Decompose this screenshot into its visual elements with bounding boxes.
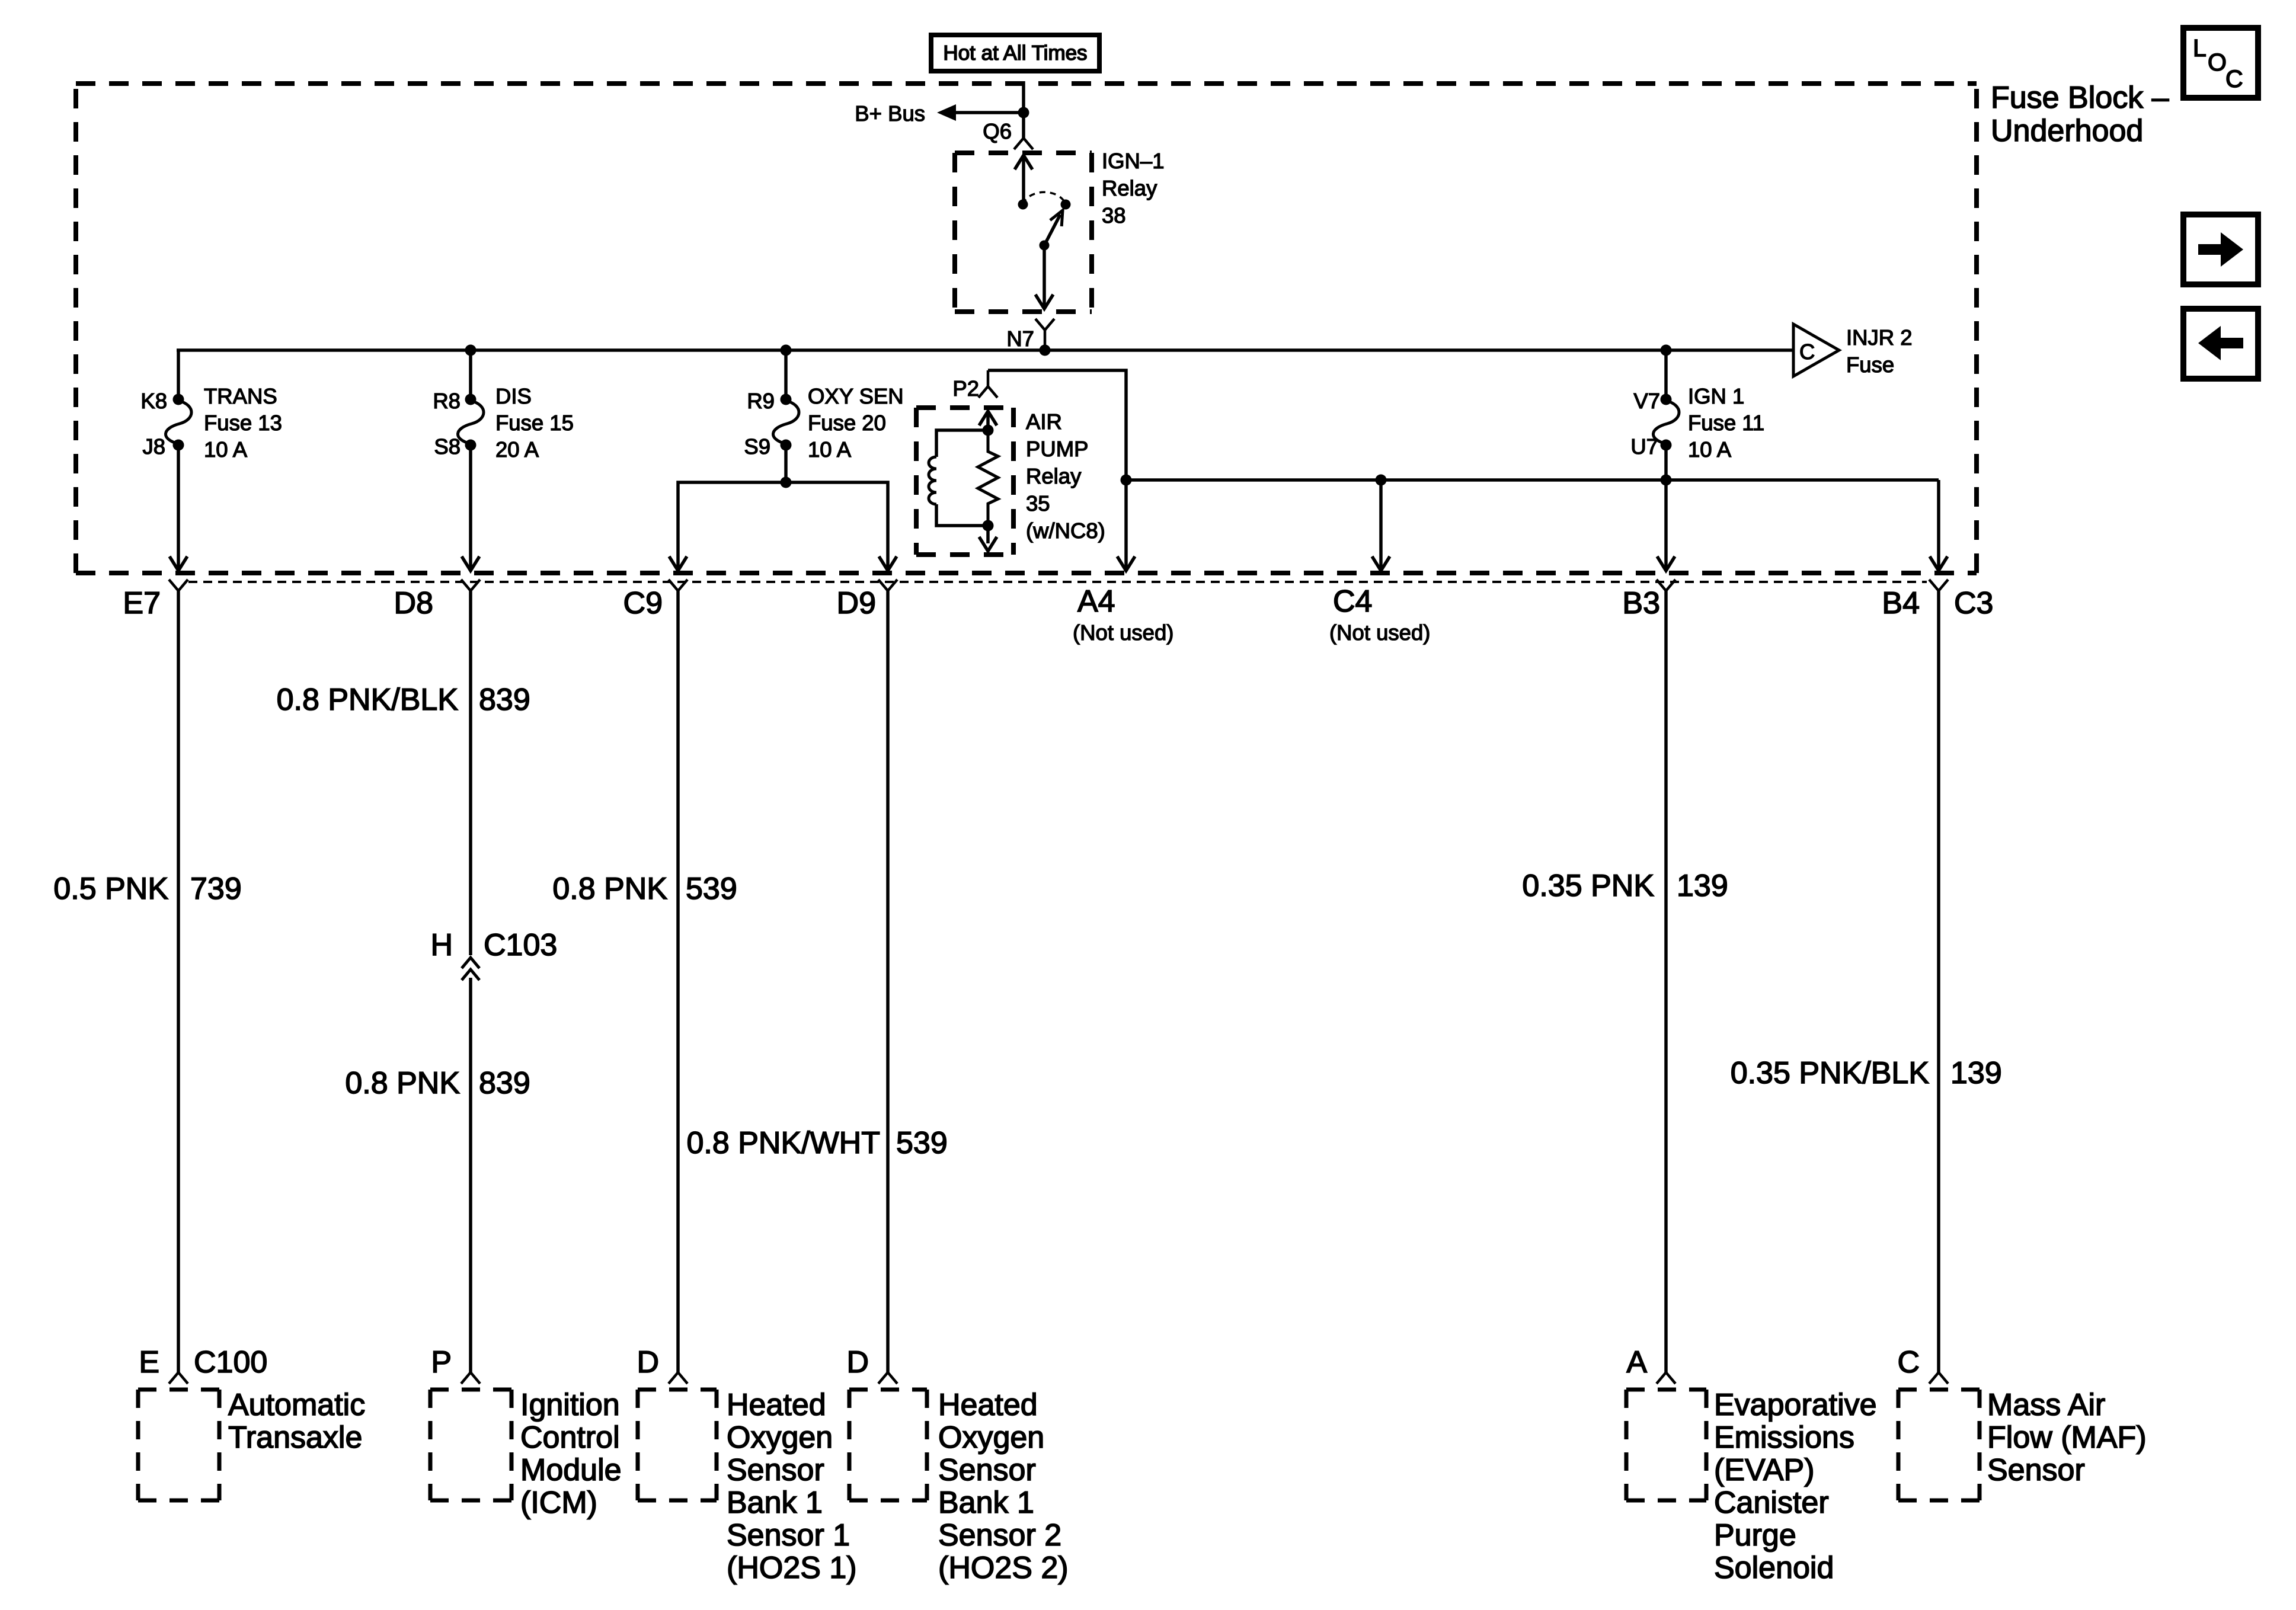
wire bus corner down to fuse 13 [177, 349, 180, 399]
arrow into connector B4 [1930, 556, 1948, 571]
relay 35 bottom pin arrow [979, 526, 997, 551]
svg-text:TRANS: TRANS [204, 384, 277, 408]
svg-text:Flow (MAF): Flow (MAF) [1987, 1420, 2147, 1455]
node junction dot relay output line at A4 [1121, 475, 1132, 486]
label C4 (Not used) [1329, 584, 1430, 645]
svg-text:OXY SEN: OXY SEN [808, 384, 904, 408]
connector row C1/C2 boundary (thin dashed) [188, 581, 1927, 583]
svg-text:0.5 PNK: 0.5 PNK [53, 872, 168, 906]
svg-text:C103: C103 [484, 928, 557, 962]
connector E / C100 at Automatic Transaxle [139, 1345, 267, 1384]
svg-text:(HO2S 1): (HO2S 1) [727, 1551, 857, 1585]
wire fuse 20 to split node [784, 445, 788, 482]
svg-text:H: H [430, 928, 453, 962]
svg-text:139: 139 [1677, 869, 1728, 903]
node bus junction dot at fuse 15 [465, 345, 477, 356]
svg-text:C: C [2225, 65, 2243, 92]
svg-text:38: 38 [1102, 203, 1126, 228]
svg-text:0.8 PNK: 0.8 PNK [345, 1066, 460, 1100]
connector N7 [1006, 319, 1054, 351]
relay 38 switch arm pivot dot [1040, 241, 1050, 251]
svg-text:Fuse: Fuse [1846, 353, 1894, 377]
label DIS Fuse 15 20 A [495, 384, 574, 462]
label wire 539 0.8 PNK/WHT [687, 1126, 948, 1160]
relay 35 internal resistor [978, 430, 998, 526]
svg-text:Fuse 20: Fuse 20 [808, 411, 886, 435]
svg-text:20 A: 20 A [495, 437, 539, 462]
arrow into connector C4 [1372, 556, 1390, 571]
wire from Hot at All Times to B+ node [1022, 81, 1025, 138]
svg-text:R9: R9 [747, 389, 775, 413]
label wire 739 0.5 PNK [53, 872, 241, 906]
label wire 839 0.8 PNK/BLK [277, 683, 530, 717]
node bus junction dot at fuse 20 [781, 345, 792, 356]
svg-text:Fuse 13: Fuse 13 [204, 411, 282, 435]
svg-text:10 A: 10 A [808, 437, 852, 462]
fuse F15 DIS Fuse 15 20A (pins R8/S8) [458, 394, 484, 451]
node Q6 junction dot [1018, 107, 1029, 119]
svg-text:D: D [637, 1345, 659, 1379]
label IGN-1 Relay 38 [1102, 149, 1165, 228]
arrow into connector B3 [1657, 556, 1675, 571]
svg-text:B+ Bus: B+ Bus [855, 101, 925, 126]
wire C103 to ICM pin P [469, 978, 472, 1372]
svg-text:A: A [1626, 1345, 1647, 1379]
label wire 139 0.35 PNK [1522, 869, 1728, 903]
svg-text:0.35 PNK: 0.35 PNK [1522, 869, 1654, 903]
svg-text:(w/NC8): (w/NC8) [1026, 518, 1105, 543]
svg-text:O: O [2208, 49, 2227, 76]
svg-text:Control: Control [520, 1420, 620, 1455]
connector D at HO2S2 [846, 1345, 897, 1384]
svg-text:Sensor 2: Sensor 2 [938, 1518, 1061, 1553]
wire B3 to EVAP pin A [1664, 591, 1668, 1372]
svg-text:Heated: Heated [727, 1388, 826, 1422]
svg-text:Evaporative: Evaporative [1714, 1388, 1877, 1422]
svg-text:539: 539 [896, 1126, 948, 1160]
wire down to B3 [1664, 480, 1668, 569]
svg-text:Fuse Block –: Fuse Block – [1991, 81, 2169, 115]
svg-text:Oxygen: Oxygen [938, 1420, 1044, 1455]
svg-text:(HO2S 2): (HO2S 2) [938, 1551, 1069, 1585]
node N7 junction dot [1040, 345, 1051, 356]
svg-text:139: 139 [1950, 1056, 2002, 1090]
fuse block box Fuse Block - Underhood (dashed outline) [76, 84, 1977, 573]
svg-text:K8: K8 [140, 389, 167, 413]
label wire 539 0.8 PNK [552, 872, 737, 906]
svg-text:739: 739 [190, 872, 242, 906]
label A4 (Not used) [1073, 584, 1173, 645]
svg-text:D9: D9 [837, 586, 876, 620]
label wire 839 0.8 PNK [345, 1066, 530, 1100]
svg-text:V7: V7 [1633, 389, 1660, 413]
svg-text:C100: C100 [194, 1345, 267, 1379]
arrow into connector D9 [879, 556, 897, 571]
svg-text:Purge: Purge [1714, 1518, 1796, 1553]
connector D at HO2S1 [637, 1345, 687, 1384]
svg-text:Mass Air: Mass Air [1987, 1388, 2105, 1422]
svg-text:Canister: Canister [1714, 1486, 1829, 1520]
svg-text:Q6: Q6 [983, 119, 1012, 143]
svg-text:Sensor 1: Sensor 1 [727, 1518, 850, 1553]
svg-text:0.8 PNK: 0.8 PNK [552, 872, 667, 906]
wire bus to fuse 15 [469, 350, 472, 399]
label AIR PUMP Relay 35 (w/NC8) [1026, 409, 1105, 543]
component EVAP Canister Purge Solenoid (dashed box) [1626, 1388, 1877, 1585]
svg-text:Relay: Relay [1026, 464, 1082, 488]
label wire 139 0.35 PNK/BLK [1731, 1056, 2002, 1090]
LOC reference symbol box [2183, 28, 2258, 98]
svg-text:(Not used): (Not used) [1073, 620, 1173, 645]
svg-text:(EVAP): (EVAP) [1714, 1453, 1815, 1487]
label IGN 1 Fuse 11 10 A [1688, 384, 1764, 462]
node junction dot at C4 [1376, 475, 1387, 486]
connector A at EVAP solenoid [1626, 1345, 1675, 1384]
svg-text:PUMP: PUMP [1026, 437, 1088, 461]
svg-text:Fuse 15: Fuse 15 [495, 411, 574, 435]
label Fuse Block - Underhood [1991, 81, 2169, 148]
svg-text:Solenoid: Solenoid [1714, 1551, 1834, 1585]
arrow into connector C9 [669, 556, 687, 571]
arrow into connector D8 [462, 556, 479, 571]
svg-text:0.35 PNK/BLK: 0.35 PNK/BLK [1731, 1056, 1930, 1090]
svg-text:E7: E7 [123, 586, 161, 620]
svg-text:(ICM): (ICM) [520, 1486, 597, 1520]
wire B+ Bus tap with arrow [937, 104, 1024, 121]
relay U35 AIR PUMP Relay (dashed box) [916, 408, 1013, 555]
svg-text:Fuse 11: Fuse 11 [1688, 411, 1764, 435]
svg-text:P: P [431, 1345, 452, 1379]
svg-text:J8: J8 [142, 434, 165, 459]
Hot at All Times power label box [931, 35, 1099, 71]
svg-text:D: D [846, 1345, 869, 1379]
svg-text:P2: P2 [952, 376, 979, 401]
svg-text:D8: D8 [394, 586, 433, 620]
svg-text:C4: C4 [1333, 584, 1372, 619]
connector P at ICM [431, 1345, 480, 1384]
wire bus to fuse 20 [784, 350, 788, 399]
fuse F13 TRANS Fuse 13 10A (pins K8/J8) [165, 394, 191, 451]
svg-text:(Not used): (Not used) [1329, 620, 1430, 645]
svg-text:Ignition: Ignition [520, 1388, 620, 1422]
svg-text:839: 839 [479, 683, 530, 717]
svg-text:E: E [139, 1345, 159, 1379]
node relay 35 top junction dot [983, 425, 994, 436]
svg-text:839: 839 [479, 1066, 530, 1100]
svg-text:Module: Module [520, 1453, 622, 1487]
node bus junction dot at fuse 11 [1661, 345, 1672, 356]
wire E7 to Automatic Transaxle pin E [177, 591, 180, 1372]
svg-text:B4: B4 [1882, 586, 1920, 620]
component Automatic Transaxle (dashed box) [138, 1388, 365, 1500]
svg-text:0.8 PNK/BLK: 0.8 PNK/BLK [277, 683, 459, 717]
svg-text:IGN–1: IGN–1 [1102, 149, 1165, 173]
wire fuse 13 to E7 [177, 445, 180, 569]
component Ignition Control Module ICM (dashed box) [430, 1388, 622, 1520]
connector D9 [837, 580, 897, 620]
svg-text:C9: C9 [623, 586, 663, 620]
wire C9 to HO2S1 pin D [676, 591, 680, 1372]
svg-text:INJR 2: INJR 2 [1846, 325, 1913, 350]
relay 38 switch NO contact [1061, 200, 1071, 210]
svg-text:C: C [1799, 340, 1815, 364]
svg-text:AIR: AIR [1026, 409, 1062, 434]
label OXY SEN Fuse 20 10 A [808, 384, 904, 462]
svg-text:35: 35 [1026, 491, 1050, 516]
svg-text:S8: S8 [434, 434, 461, 459]
connector C103 in-line (double chevron) [430, 928, 557, 980]
svg-text:C: C [1897, 1345, 1920, 1379]
wire D9 to HO2S2 pin D [886, 591, 890, 1372]
wire N7 bus to P2 branch [988, 370, 1126, 480]
label TRANS Fuse 13 10 A [204, 384, 282, 462]
svg-text:Transaxle: Transaxle [228, 1420, 362, 1455]
component Heated Oxygen Sensor Bank 1 Sensor 1 HO2S 1 (dashed box) [638, 1388, 857, 1585]
svg-text:0.8 PNK/WHT: 0.8 PNK/WHT [687, 1126, 881, 1160]
svg-text:B3: B3 [1622, 586, 1660, 620]
relay 38 switch arm with arrowhead [1044, 210, 1063, 245]
node junction dot at B3 [1661, 475, 1672, 486]
connector B3 [1622, 580, 1675, 620]
relay 35 coil pin arrow [979, 411, 997, 430]
relay 38 input pin arrow [1015, 155, 1032, 204]
svg-text:IGN 1: IGN 1 [1688, 384, 1744, 408]
wire D8 to C103 [469, 591, 472, 955]
connector C at MAF sensor [1897, 1345, 1948, 1384]
svg-text:Heated: Heated [938, 1388, 1038, 1422]
wire down to A4 [1124, 480, 1128, 569]
connector P2 [952, 370, 997, 401]
svg-text:Sensor: Sensor [727, 1453, 824, 1487]
wire bus to fuse 11 [1664, 350, 1668, 399]
svg-text:Underhood: Underhood [1991, 114, 2143, 148]
wire C3 to MAF pin C [1937, 591, 1940, 1372]
connector B4 / C3 [1882, 580, 1993, 620]
svg-text:A4: A4 [1077, 584, 1115, 619]
svg-text:Relay: Relay [1102, 176, 1157, 200]
svg-text:Bank 1: Bank 1 [938, 1486, 1034, 1520]
svg-text:DIS: DIS [495, 384, 532, 408]
arrow into connector A4 [1117, 556, 1135, 571]
connector D8 [394, 580, 480, 620]
wire fuse 15 to D8 [469, 445, 472, 569]
wire main feed bus [177, 348, 1793, 352]
relay U38 IGN-1 Relay (dashed box) [955, 153, 1092, 312]
svg-text:Sensor: Sensor [1987, 1453, 2085, 1487]
svg-text:S9: S9 [744, 434, 770, 459]
connector C9 [623, 580, 687, 620]
svg-text:Bank 1: Bank 1 [727, 1486, 823, 1520]
svg-text:Automatic: Automatic [228, 1388, 365, 1422]
relay 35 coil winding [929, 430, 988, 526]
svg-text:R8: R8 [433, 389, 461, 413]
wire corner down to B4 [1937, 480, 1940, 569]
relay 38 actuation dashed arc [1023, 192, 1066, 204]
node relay 35 bottom junction dot [983, 520, 994, 532]
svg-text:C3: C3 [1954, 586, 1993, 620]
svg-text:Sensor: Sensor [938, 1453, 1036, 1487]
label INJR 2 Fuse [1846, 325, 1913, 377]
relay 38 switch common contact [1018, 200, 1028, 210]
svg-text:10 A: 10 A [1688, 437, 1732, 462]
svg-text:Oxygen: Oxygen [727, 1420, 833, 1455]
component Mass Air Flow MAF Sensor (dashed box) [1898, 1388, 2147, 1500]
wire relay output line to B4 [1126, 478, 1939, 482]
fuse F11 IGN 1 Fuse 11 10A (pins V7/U7) [1653, 394, 1679, 451]
svg-text:N7: N7 [1006, 327, 1034, 351]
svg-text:Hot at All Times: Hot at All Times [943, 41, 1087, 65]
svg-text:539: 539 [686, 872, 737, 906]
off-page connector C to INJR 2 Fuse [1793, 324, 1839, 376]
svg-text:L: L [2193, 34, 2207, 62]
svg-text:10 A: 10 A [204, 437, 248, 462]
svg-text:U7: U7 [1630, 434, 1658, 459]
component Heated Oxygen Sensor Bank 1 Sensor 2 HO2S 2 (dashed box) [849, 1388, 1069, 1585]
connector Q6 [983, 119, 1033, 149]
wire fuse 11 to output line [1664, 445, 1668, 480]
connector E7 [123, 580, 188, 620]
right-arrow navigation box [2183, 215, 2258, 284]
wire down to C4 [1379, 480, 1383, 569]
arrow into connector E7 [170, 556, 187, 571]
relay 38 output pin arrow [1035, 245, 1053, 309]
svg-text:Emissions: Emissions [1714, 1420, 1854, 1455]
fuse F20 OXY SEN Fuse 20 10A (pins R9/S9) [773, 394, 799, 451]
left-arrow navigation box [2183, 309, 2258, 379]
node S9 output split junction dot [781, 477, 792, 488]
wire split to C9 and D9 [678, 482, 888, 569]
